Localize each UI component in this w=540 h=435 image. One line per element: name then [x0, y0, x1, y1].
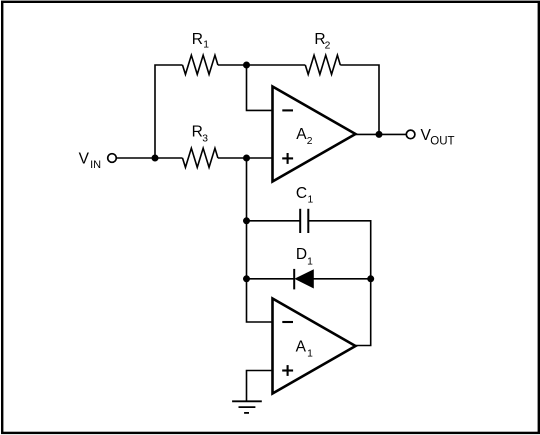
- svg-text:IN: IN: [90, 159, 101, 171]
- svg-text:2: 2: [325, 41, 331, 52]
- svg-text:OUT: OUT: [430, 136, 454, 148]
- svg-text:A: A: [296, 338, 307, 355]
- svg-text:A: A: [296, 126, 307, 143]
- svg-text:2: 2: [307, 136, 313, 147]
- svg-text:1: 1: [307, 257, 313, 268]
- svg-text:1: 1: [308, 195, 314, 206]
- svg-text:R: R: [192, 31, 203, 48]
- svg-text:1: 1: [307, 349, 313, 360]
- svg-text:V: V: [79, 150, 90, 167]
- svg-text:D: D: [296, 246, 307, 263]
- svg-text:C: C: [296, 185, 307, 202]
- svg-text:R: R: [192, 124, 203, 141]
- svg-text:1: 1: [203, 39, 209, 50]
- svg-text:3: 3: [202, 133, 208, 144]
